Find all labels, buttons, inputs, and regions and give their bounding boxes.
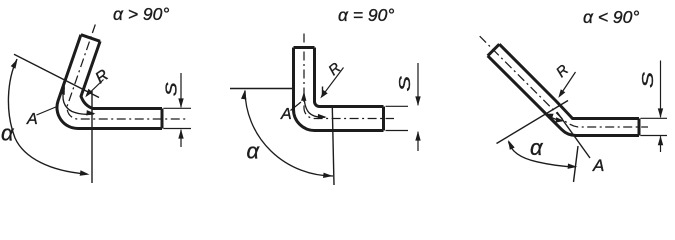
tube inner edge (right side and top) xyxy=(315,48,384,107)
angle dimension arc alpha with arrows xyxy=(8,59,86,174)
diagram 1: pipe bent at angle greater than 90 degrees xyxy=(1,4,191,183)
diagram 2: pipe bent at right angle xyxy=(230,5,421,185)
angle ray: vertical line below bend (lower stroke) xyxy=(332,107,334,185)
arc-length dimension A: solid arc with two arrows xyxy=(304,94,325,118)
angle ray: horizontal line left of bend xyxy=(230,88,293,90)
leader for label A xyxy=(291,102,302,111)
dimension S: extension lines xyxy=(386,105,409,107)
dimension S: upper arrow xyxy=(417,63,419,105)
tube upper end cap xyxy=(488,44,500,56)
angle ray: extension line through bend corner xyxy=(14,54,99,97)
svg-text:A: A xyxy=(592,156,604,175)
arc-length dimension A: solid arc with two arrows xyxy=(63,88,94,115)
dimension S: lower arrow xyxy=(415,131,420,141)
angle ray: axis extension lower stroke xyxy=(574,146,579,182)
angle dimension arc alpha with arrows xyxy=(509,142,576,167)
angle ray: extension of inclined axis toward label A xyxy=(557,112,590,158)
arc-length dimension A: solid arc with two arrows xyxy=(547,115,563,121)
svg-text:α = 90°: α = 90° xyxy=(338,5,394,25)
centerline dash-dot xyxy=(480,36,648,127)
leader for R with arrow to inner bend radius xyxy=(322,68,344,97)
leader for R with arrow to inner bend radius xyxy=(87,80,104,96)
svg-text:α > 90°: α > 90° xyxy=(113,4,169,24)
leader for R with arrow to inner bend radius xyxy=(560,72,576,96)
svg-text:A: A xyxy=(280,106,292,123)
diagram 3: pipe bent at angle less than 90 degrees xyxy=(480,7,667,182)
dimension S: extension lines xyxy=(164,107,192,109)
dimension S: upper arrow xyxy=(180,73,182,107)
svg-text:S: S xyxy=(640,72,657,88)
dimension S: lower arrow xyxy=(180,130,182,147)
svg-text:S: S xyxy=(162,82,180,97)
svg-text:A: A xyxy=(26,111,38,128)
tube upper end cap xyxy=(294,46,315,49)
tube inner edge (upper-right side and top) xyxy=(499,44,639,118)
tube right end cap xyxy=(161,109,164,129)
svg-text:α: α xyxy=(1,121,15,146)
tube right end cap xyxy=(382,107,385,131)
angle ray: tangent line through bend xyxy=(497,101,569,144)
tube inner edge (right side and top) xyxy=(81,41,162,108)
svg-text:α < 90°: α < 90° xyxy=(583,7,639,27)
tube outer edge (left side and bottom) xyxy=(57,35,162,129)
dimension S: extension lines xyxy=(641,117,668,119)
centerline dash-dot xyxy=(304,34,394,119)
angle ray: vertical line below bend xyxy=(91,91,93,183)
tube right end cap xyxy=(638,119,641,136)
tube upper end cap xyxy=(81,35,100,42)
dimension S: upper arrow xyxy=(660,61,662,118)
svg-text:S: S xyxy=(396,75,414,91)
dimension S: lower arrow xyxy=(660,136,662,152)
angle dimension arc alpha with arrows xyxy=(245,91,333,177)
angle ray: vertical line below bend xyxy=(322,87,324,97)
svg-text:α: α xyxy=(247,139,261,164)
tube outer edge (lower-left side and bottom) xyxy=(488,56,639,136)
svg-text:α: α xyxy=(530,135,544,160)
centerline dash-dot xyxy=(67,25,188,120)
tube outer edge (left side and bottom) xyxy=(294,48,384,131)
leader for label A xyxy=(37,107,58,116)
